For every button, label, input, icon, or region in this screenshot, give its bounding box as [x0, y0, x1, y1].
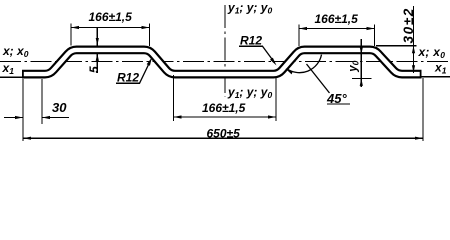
dim 166 top-right [298, 25, 300, 47]
svg-text:R12: R12 [117, 71, 139, 85]
svg-text:166±1,5: 166±1,5 [315, 12, 359, 26]
45 degree arc and label [287, 55, 322, 73]
svg-text:y1; y; y0: y1; y; y0 [227, 85, 272, 100]
svg-text:650±5: 650±5 [207, 127, 241, 141]
vertical y axis centerline [224, 5, 226, 97]
dim y0 right [360, 39, 362, 87]
svg-text:30±2: 30±2 [401, 7, 416, 43]
svg-text:R12: R12 [240, 34, 262, 48]
svg-text:5: 5 [87, 66, 101, 73]
x1 axis left [0, 76, 23, 78]
dim 30 bottom-left [41, 79, 43, 124]
x1 axis right [421, 76, 450, 78]
dim 650 bottom [22, 79, 24, 141]
dim 30±2 right height [413, 6, 415, 73]
sheet profile inner white core [24, 50, 420, 74]
dim 166 center bottom [173, 75, 175, 121]
sheet profile outer [22, 50, 422, 74]
x;x0 axis centerline [0, 61, 450, 63]
dim 166 top-left [70, 24, 72, 46]
svg-text:166±1,5: 166±1,5 [202, 101, 246, 115]
dim 5 thickness [96, 28, 98, 46]
crest top extension line right [376, 45, 417, 47]
svg-text:30: 30 [52, 100, 67, 115]
svg-text:166±1,5: 166±1,5 [89, 10, 133, 24]
svg-text:y1; y; y0: y1; y; y0 [227, 0, 272, 15]
